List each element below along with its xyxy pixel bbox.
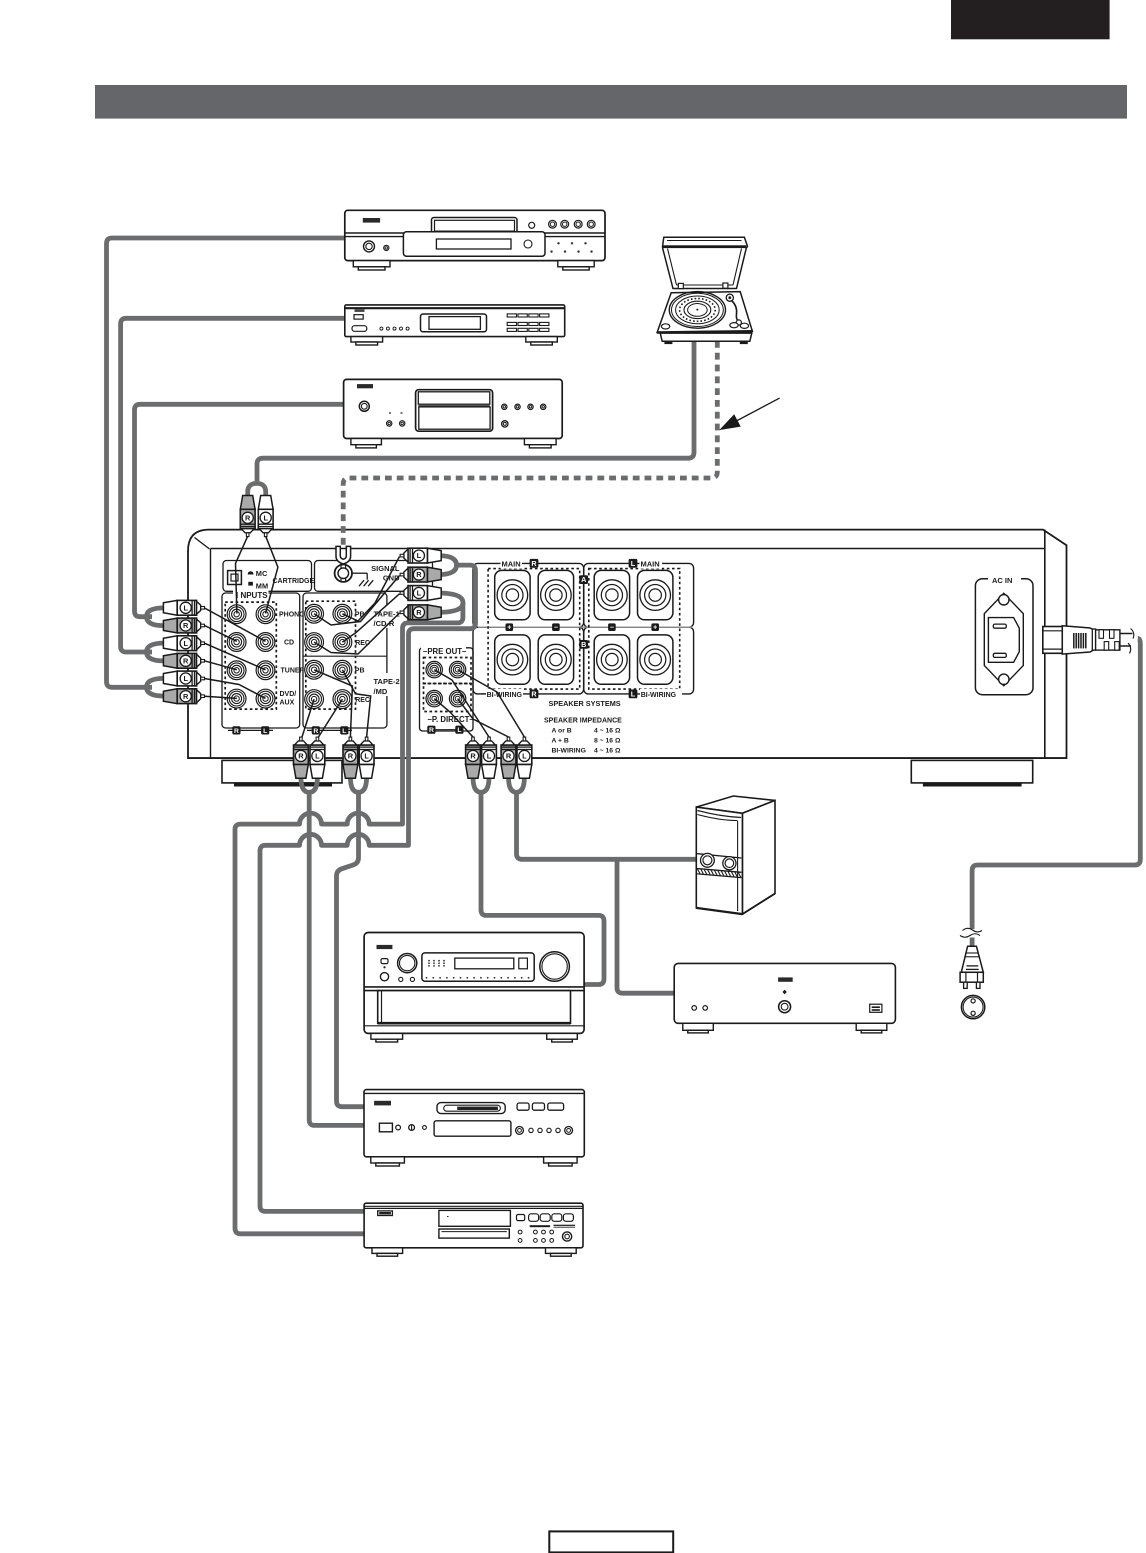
svg-text:R: R: [416, 570, 422, 579]
svg-text:TUNER: TUNER: [281, 668, 305, 675]
svg-text:MM: MM: [256, 581, 268, 590]
svg-text:SPEAKER SYSTEMS: SPEAKER SYSTEMS: [549, 699, 621, 708]
svg-text:L: L: [631, 690, 636, 699]
svg-text:MAIN: MAIN: [502, 560, 521, 569]
svg-text:L: L: [183, 603, 188, 612]
svg-text:R: R: [470, 752, 476, 761]
svg-text:R: R: [531, 690, 537, 699]
svg-text:4 ~ 16 Ω: 4 ~ 16 Ω: [594, 747, 621, 754]
svg-text:R: R: [313, 728, 318, 735]
svg-text:PB: PB: [355, 667, 365, 674]
svg-text:L: L: [183, 639, 188, 648]
svg-text:DVD/: DVD/: [280, 691, 297, 698]
svg-text:R: R: [245, 513, 251, 522]
svg-text:+: +: [507, 625, 511, 632]
svg-text:R: R: [429, 727, 434, 734]
svg-text:L: L: [364, 752, 369, 761]
svg-text:AUX: AUX: [280, 700, 295, 707]
svg-text:R: R: [298, 752, 304, 761]
svg-text:BI-WIRING: BI-WIRING: [487, 692, 523, 699]
svg-text:−: −: [610, 625, 614, 632]
svg-text:R: R: [348, 752, 354, 761]
svg-text:CD: CD: [284, 639, 294, 646]
svg-text:BI-WIRING: BI-WIRING: [552, 747, 586, 754]
svg-text:R: R: [183, 692, 189, 701]
svg-text:R: R: [183, 656, 189, 665]
svg-text:−: −: [554, 625, 558, 632]
svg-text:REC: REC: [355, 697, 370, 704]
svg-text:L: L: [263, 513, 268, 522]
svg-text:PHONO: PHONO: [279, 612, 305, 619]
svg-text:B: B: [581, 640, 586, 649]
svg-text:A + B: A + B: [552, 737, 569, 744]
svg-text:CARTRIDGE: CARTRIDGE: [273, 578, 315, 585]
svg-text:4 ~ 16 Ω: 4 ~ 16 Ω: [594, 727, 621, 734]
svg-text:+: +: [653, 625, 657, 632]
svg-text:A or B: A or B: [552, 727, 572, 734]
svg-text:L: L: [457, 727, 461, 734]
svg-text:L: L: [417, 589, 422, 598]
svg-text:AC IN: AC IN: [992, 576, 1012, 585]
svg-text:L: L: [183, 674, 188, 683]
svg-text:L: L: [315, 752, 320, 761]
svg-text:I NPUTS: I NPUTS: [236, 591, 268, 600]
svg-text:L: L: [487, 752, 492, 761]
svg-text:R: R: [183, 621, 189, 630]
svg-text:R: R: [506, 752, 512, 761]
svg-text:L: L: [263, 728, 267, 735]
svg-text:TAPE-2: TAPE-2: [374, 677, 400, 686]
svg-text:BI-WIRING: BI-WIRING: [641, 692, 677, 699]
svg-text:R: R: [531, 559, 537, 568]
svg-text:8 ~ 16 Ω: 8 ~ 16 Ω: [594, 737, 621, 744]
svg-text:–PRE OUT–: –PRE OUT–: [423, 647, 467, 656]
svg-text:SPEAKER IMPEDANCE: SPEAKER IMPEDANCE: [544, 718, 622, 725]
svg-text:A: A: [581, 575, 586, 584]
svg-text:L: L: [417, 551, 422, 560]
svg-text:–P. DIRECT–: –P. DIRECT–: [428, 715, 475, 724]
svg-text:L: L: [522, 752, 527, 761]
svg-text:MC: MC: [256, 569, 268, 578]
svg-text:R: R: [416, 608, 422, 617]
svg-text:R: R: [234, 728, 239, 735]
svg-text:/MD: /MD: [374, 687, 388, 696]
svg-text:MAIN: MAIN: [641, 560, 660, 569]
svg-text:L: L: [631, 559, 636, 568]
svg-text:L: L: [342, 728, 346, 735]
